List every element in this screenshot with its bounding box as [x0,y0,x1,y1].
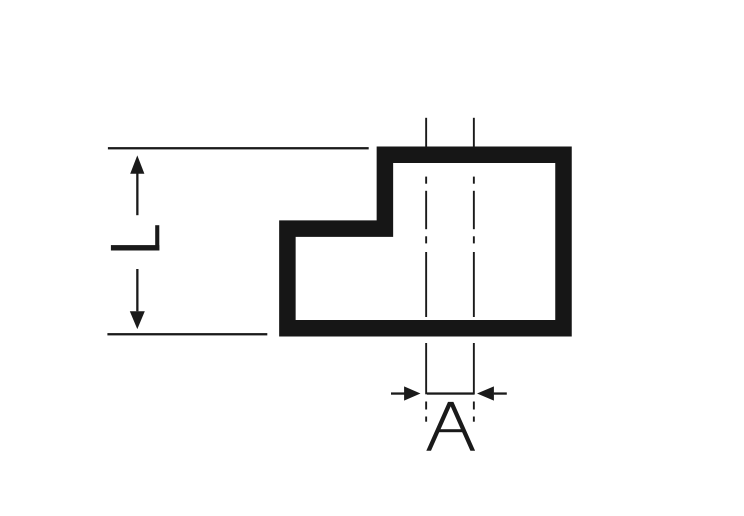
dimension L: down arrow [130,269,145,329]
dimension A: left arrow (points right) [391,386,421,400]
label L (mirrored L glyph) [111,225,159,250]
label A [426,402,475,451]
center line right (dash-dot) [473,118,475,422]
dimension L: up arrow [130,155,144,215]
part outline (stepped block profile) [287,155,563,328]
dimension A: line between extension lines [427,392,475,394]
dimension A: right arrow (points left) [477,386,507,400]
extension line top [108,147,369,149]
extension line bottom [107,333,267,335]
center line left (dash-dot) [425,118,427,422]
